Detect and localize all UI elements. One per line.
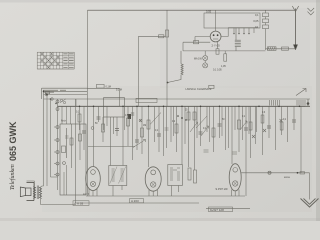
resistor R6 (176, 106, 178, 152)
junction dot (297, 172, 299, 174)
coil L6 hatched (270, 100, 280, 106)
svg-text:ERDE: ERDE (284, 177, 291, 179)
svg-text:Telefunken: Telefunken (9, 164, 16, 190)
capacitor C11 (293, 106, 295, 130)
coil L5 with core (235, 28, 241, 51)
antenna A (292, 6, 298, 50)
resistor R25 (281, 106, 283, 135)
svg-text:6 V 03: 6 V 03 (75, 202, 84, 206)
arrow right (296, 89, 306, 96)
resistor R2 (102, 117, 104, 142)
wire tube V4 pins (232, 190, 240, 197)
resistor R13 (188, 168, 191, 180)
junction cluster dots (177, 115, 179, 117)
switch contacts (228, 28, 258, 33)
resistor R14 (194, 170, 197, 183)
bottom rail 1 (86, 195, 245, 197)
svg-text:0,1: 0,1 (255, 13, 259, 17)
wire antenna feed (266, 48, 296, 50)
capacitor C5 (136, 106, 138, 150)
component on earth wire (300, 172, 305, 174)
earth chevron top right (308, 8, 315, 15)
dial lamp La2 (203, 63, 208, 68)
resistor R11 (250, 106, 252, 158)
capacitor C7 (200, 106, 202, 146)
wire EM left (195, 37, 210, 43)
svg-text:065 GWK: 065 GWK (8, 121, 18, 161)
wire lamp branch (183, 50, 266, 52)
label box A203 (130, 199, 144, 203)
label netz text (43, 90, 66, 92)
svg-text:9·P07 i20: 9·P07 i20 (216, 187, 228, 191)
wire EM right (221, 28, 228, 37)
svg-text:0,1 0,05: 0,1 0,05 (213, 69, 222, 72)
contact circle in box (63, 162, 66, 165)
drop (154, 106, 156, 142)
resistor R16 (159, 35, 164, 38)
drop (170, 106, 172, 142)
dial lamp La1 (203, 56, 208, 61)
resistor R30 in chassis box (62, 146, 66, 153)
wire drop x113.5 (113, 117, 115, 134)
fuse Si1 (45, 93, 48, 96)
wire mid horizontal (88, 146, 135, 148)
speaker LS (20, 183, 34, 201)
resistor R21 (263, 19, 269, 23)
coil L7 hatched (297, 100, 305, 106)
component box on label row (209, 85, 214, 88)
rail g3 (44, 98, 311, 100)
electrolytic C4b (128, 114, 132, 119)
component box on rails (136, 98, 157, 102)
drop (225, 106, 227, 150)
resistor R17 (165, 30, 168, 37)
component box heater (97, 84, 105, 88)
svg-text:0,05: 0,05 (253, 19, 259, 23)
capacitor C20 hatched (268, 47, 277, 51)
wire mid vertical (166, 10, 168, 106)
capacitor C14 (232, 152, 237, 154)
tube V4 output (229, 164, 241, 191)
svg-text:0,1 M: 0,1 M (116, 90, 122, 92)
capacitor C3 (116, 117, 118, 136)
tube V3 drop (231, 106, 233, 164)
wire drop x166 (166, 106, 168, 148)
wire tube V2 pins (149, 190, 158, 196)
svg-text:A 203: A 203 (131, 199, 139, 203)
bus end junction (307, 102, 310, 105)
wire lamps (204, 51, 206, 63)
IF1 drop (110, 117, 112, 166)
junction dot (167, 82, 169, 84)
box L chassis (60, 124, 86, 195)
wire EM top (215, 10, 217, 31)
drop (206, 106, 208, 132)
box top left corner (42, 88, 88, 99)
svg-text:1,05: 1,05 (221, 65, 226, 68)
wire h36 (139, 35, 166, 37)
table X marks (41, 53, 59, 69)
svg-text:A F 7: A F 7 (83, 192, 90, 196)
rail g1 (44, 90, 88, 92)
IF transformer T1 (109, 166, 127, 186)
variable arrow 1 (190, 122, 198, 132)
resistor R8 (194, 106, 196, 170)
extra drops dense zone (174, 106, 256, 148)
wire drop x107 (106, 106, 108, 126)
wire drop x70.5 (70, 106, 72, 124)
switch arm (150, 113, 161, 125)
capacitor C8 (219, 106, 221, 138)
label box 9W7 (209, 207, 233, 212)
wire drop x62 (61, 106, 63, 124)
switch arm S2 (133, 140, 146, 148)
rail g2 (44, 94, 88, 96)
wire drop 138 (138, 36, 140, 106)
small scattered labels (61, 90, 287, 133)
tube V1 drop (93, 106, 95, 166)
IF1 drop b (122, 106, 124, 165)
bus junction dots (79, 106, 301, 108)
switch contact X (263, 129, 266, 132)
capacitor C30 in chassis box (65, 128, 69, 158)
resistor R32 in chassis box (79, 124, 81, 160)
IF transformer T2 (168, 165, 183, 186)
junction cluster (181, 117, 183, 119)
output transformer Tr2 (33, 186, 41, 200)
table value dashes (63, 54, 73, 67)
EM tuning indicator tube U4 (210, 31, 221, 42)
main bus (58, 105, 311, 107)
fuse symbol (268, 171, 271, 174)
resistor R10 (238, 106, 240, 152)
earth arrow (301, 199, 319, 208)
capacitor C2 (98, 106, 100, 122)
svg-text:9+W7 128: 9+W7 128 (210, 208, 224, 212)
wire x75 (75, 99, 77, 203)
resistor R18 (194, 41, 199, 44)
svg-text:MA 1W: MA 1W (194, 58, 202, 61)
wire right edge drop (300, 106, 302, 173)
resistor R31 in chassis box (71, 124, 73, 168)
resistor R23 (282, 47, 289, 50)
tube socket table (37, 52, 74, 69)
wire y42 (183, 42, 210, 51)
mains switch cluster (45, 92, 49, 94)
switch contact column (54, 99, 59, 190)
capacitor C6 (158, 106, 160, 152)
resistor R4 (141, 106, 143, 154)
tuner box (104, 98, 125, 117)
wire tube V1 pins (89, 189, 97, 196)
resistor R7 (188, 106, 190, 167)
variable arrow 2 (201, 126, 209, 136)
wire heater line (87, 88, 120, 106)
wire left col (87, 10, 89, 196)
wire transformer bottom (41, 199, 76, 205)
contact circle (91, 127, 94, 130)
tuner box side extensions (104, 117, 125, 130)
electrolytic C4 (132, 106, 134, 160)
svg-text:0,05: 0,05 (206, 10, 212, 14)
drop (256, 106, 258, 132)
bottom rail 2 (76, 202, 200, 204)
capacitor C10 (268, 106, 270, 138)
bottom rail 3 (206, 208, 250, 210)
drop (275, 106, 277, 150)
switch contact X (252, 135, 255, 138)
wire transformer top (27, 181, 44, 187)
wire drop x66.5 (66, 106, 68, 124)
capacitor C12 (165, 128, 169, 130)
wire drop x76 (75, 99, 77, 106)
resistor R9 (213, 106, 215, 152)
resistor R12 (261, 106, 263, 155)
wire top rail (88, 9, 296, 11)
wire IF T1 bottom (113, 186, 122, 197)
wire output to earth (241, 173, 309, 200)
svg-text:2·Y 05: 2·Y 05 (212, 44, 221, 48)
resistor R24 (224, 54, 227, 61)
tube V2 (145, 167, 161, 191)
fuse Si2 (51, 98, 54, 101)
IF2 drop (181, 106, 183, 164)
coil L4 (168, 51, 184, 83)
svg-text:0,1M: 0,1M (106, 86, 111, 89)
drop (287, 106, 289, 142)
resistor R1 (79, 106, 81, 130)
resistor R20 (263, 13, 269, 17)
capacitor C13 (204, 150, 209, 152)
svg-text:I·ANSCH. KH ERSATZ: I·ANSCH. KH ERSATZ (185, 87, 212, 91)
junction dots rails (43, 91, 45, 93)
label box 6V03 (73, 201, 89, 206)
tube V1 (86, 167, 101, 191)
resistor R19 (216, 49, 219, 54)
resistor R3 (127, 106, 129, 146)
drop (163, 106, 165, 156)
resistor R22 (263, 25, 269, 29)
switch box S1 (204, 13, 260, 28)
wire box L bottom links (64, 165, 67, 195)
wire resistor chain (265, 10, 267, 50)
capacitor C1 (83, 106, 85, 150)
capacitor C9 (245, 106, 247, 196)
switch arm (196, 116, 207, 128)
switch contact X (280, 119, 283, 122)
variable arrow 3 (240, 121, 247, 130)
contact circle X (139, 119, 142, 122)
wire IF T2 bottom (172, 186, 179, 197)
svg-text:1M: 1M (143, 125, 146, 127)
left verticals to mains (44, 91, 58, 186)
svg-text:0,1: 0,1 (255, 25, 259, 29)
resistor R5 (148, 106, 150, 167)
